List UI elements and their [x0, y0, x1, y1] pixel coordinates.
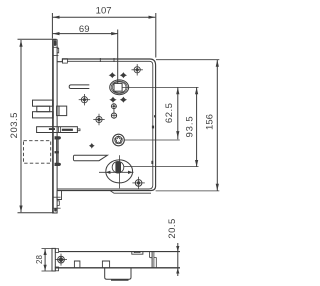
svg-text:156: 156 [204, 114, 215, 130]
case top edge tick 2 [113, 58, 115, 62]
faceplate bottom screw slot [54, 208, 56, 211]
diamond mark [89, 143, 95, 149]
faceplate tick top1 [53, 46, 59, 48]
small hole pair below hub [111, 103, 117, 118]
side case bar [56, 252, 181, 268]
extension line case top to 156 [156, 59, 219, 61]
hidden dashed box (strike) [24, 141, 51, 164]
stud top [55, 136, 61, 139]
dimension 156 [204, 60, 219, 191]
case top edge inner / right edge inner [57, 61, 153, 189]
side hanging plate [105, 268, 131, 280]
faceplate tick top2 [53, 55, 59, 57]
extension line case bottom to 156 [156, 190, 220, 192]
faceplate tick bottom1 [53, 196, 61, 198]
dimension 62.5 [164, 87, 179, 139]
side tab 1 [74, 261, 80, 268]
svg-text:20.5: 20.5 [167, 218, 178, 239]
case bottom left foot [57, 191, 62, 200]
cylinder hole [99, 155, 134, 188]
hub star marks [109, 72, 128, 103]
svg-text:107: 107 [96, 6, 112, 17]
svg-text:93.5: 93.5 [185, 115, 196, 137]
side target symbol [55, 254, 67, 266]
screw target C (top right) [132, 64, 143, 75]
screw target B [93, 114, 104, 125]
svg-text:69: 69 [79, 24, 90, 35]
case top edge tick 1 [99, 58, 101, 62]
small target (bottom right) [132, 177, 144, 189]
right edge nub 2 [152, 126, 154, 129]
stud middle [55, 151, 59, 153]
side faceplate bar [52, 248, 59, 271]
svg-text:203.5: 203.5 [9, 112, 20, 138]
latch bolt [33, 100, 53, 118]
dimension 69 [53, 24, 118, 84]
faceplate studs rod [55, 136, 61, 166]
faceplate right step bottom [57, 201, 59, 206]
dimension 107 [52, 6, 155, 58]
case bottom lower tab line [110, 191, 151, 194]
lock case outline [57, 58, 156, 191]
right edge nub 3 [151, 161, 153, 164]
faceplate right step top [57, 48, 59, 52]
extension line cylinder to 93.5 [124, 166, 199, 168]
dimension 20.5 [167, 218, 179, 276]
side top notch [132, 252, 143, 255]
case top edge outer [57, 59, 156, 191]
faceplate tick bottom2 [53, 207, 61, 209]
slot hole [69, 85, 89, 89]
svg-text:62.5: 62.5 [164, 103, 175, 124]
extension line star-circle to 62.5 [125, 139, 180, 141]
side tab 2 [102, 261, 109, 268]
dimension 28 [35, 249, 51, 271]
hub (spindle follower) [110, 80, 129, 95]
latch guide box [57, 106, 67, 116]
star circle (gear hole) [113, 134, 125, 146]
right edge nub 1 [154, 115, 156, 117]
case top-left tab box [62, 59, 67, 63]
faceplate top screw slot [54, 40, 57, 46]
svg-text:28: 28 [35, 255, 44, 264]
deadbolt [37, 127, 80, 133]
screw target A [79, 94, 90, 105]
stud bottom [55, 163, 61, 166]
dimension 203.5 [9, 39, 57, 213]
lever blade [73, 155, 107, 160]
extension line hub to right dims [122, 86, 199, 88]
dimension 93.5 [185, 87, 199, 166]
side right end cap [150, 252, 157, 268]
faceplate [53, 40, 58, 213]
